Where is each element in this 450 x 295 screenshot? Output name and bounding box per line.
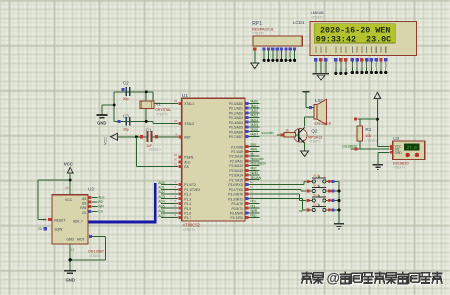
node AD0 label right xyxy=(252,100,259,104)
svg-text:DS18B20: DS18B20 xyxy=(343,145,358,149)
bus AD[0..7] vertical xyxy=(154,183,157,223)
svg-text:10: 10 xyxy=(250,180,254,184)
svg-text:P0.6/AD6: P0.6/AD6 xyxy=(229,130,243,134)
pin CS U2 xyxy=(89,210,98,213)
node DS18B20 label xyxy=(252,162,267,166)
node WEI label xyxy=(252,171,258,175)
node CS label U2 xyxy=(98,209,103,213)
pin P0.3 U1 xyxy=(229,113,260,120)
svg-text:30p: 30p xyxy=(123,127,129,131)
pin P1.6 U1 xyxy=(161,208,191,215)
LCD pins VSS VDD VEE xyxy=(314,58,327,61)
svg-text:P2.3/A11: P2.3/A11 xyxy=(230,159,243,163)
svg-text:XTAL2: XTAL2 xyxy=(184,122,194,126)
svg-text:11: 11 xyxy=(250,185,253,189)
node INT label xyxy=(252,166,257,170)
svg-text:P0.7/AD7: P0.7/AD7 xyxy=(229,135,243,139)
svg-text:RP1: RP1 xyxy=(252,21,262,27)
svg-text:23: 23 xyxy=(38,227,42,231)
svg-text:RST: RST xyxy=(184,135,191,139)
pin P0.7 U1 xyxy=(229,132,260,139)
node RS label xyxy=(252,143,257,147)
pin number 24 U2 xyxy=(65,186,69,190)
capacitor C1 xyxy=(140,128,161,152)
LCD pin name marks xyxy=(315,47,386,53)
wire VCC rail R1 xyxy=(377,98,389,146)
node AD7 label left xyxy=(158,214,165,218)
svg-text:AS: AS xyxy=(82,197,86,201)
junction LCD data xyxy=(351,71,388,74)
svg-text:P3.0/RXD: P3.0/RXD xyxy=(228,183,243,187)
node E label xyxy=(252,152,255,156)
junction button rail xyxy=(337,189,340,211)
svg-text:<TEXT>: <TEXT> xyxy=(89,254,101,258)
junction RP1 pin 7 xyxy=(284,59,287,62)
svg-text:AD3: AD3 xyxy=(158,195,165,199)
svg-text:P1.0/T2: P1.0/T2 xyxy=(184,183,196,187)
junction RP1 pin 6 xyxy=(280,59,283,62)
pin MOT U2 wire loop xyxy=(70,235,105,260)
pin P1.0 U1 xyxy=(161,180,196,187)
node RD label U2 xyxy=(98,200,103,204)
pin P3.0 U1 xyxy=(228,180,253,187)
power terminal speaker xyxy=(303,91,310,93)
pin P1.7 U1 xyxy=(161,213,191,220)
svg-text:13: 13 xyxy=(250,194,254,198)
button K3 xyxy=(306,193,339,202)
svg-text:<TEXT>: <TEXT> xyxy=(156,113,168,117)
svg-text:MOT: MOT xyxy=(77,238,85,242)
wire XTAL bottom rail xyxy=(114,121,178,123)
pin P2.6 U1 xyxy=(229,171,259,178)
RTC U2 DS12887 body xyxy=(52,187,94,244)
junction RP1 pin 3 xyxy=(267,59,270,62)
capacitor C2 xyxy=(121,81,130,102)
svg-text:P3.1/TXD: P3.1/TXD xyxy=(229,188,244,192)
pin P3.5 U1 xyxy=(231,204,253,211)
svg-text:P3.2/INT0: P3.2/INT0 xyxy=(228,193,243,197)
ground LCD xyxy=(313,74,330,80)
wire P3.6 stub xyxy=(248,212,259,214)
svg-text:<TEXT>: <TEXT> xyxy=(393,166,405,170)
junction RP1 pin 2 xyxy=(263,59,266,62)
svg-text:P0.4/AD4: P0.4/AD4 xyxy=(229,121,243,125)
svg-text:AT89C52: AT89C52 xyxy=(183,223,201,228)
pin RESET U2 xyxy=(43,218,52,222)
power terminal VCC reset xyxy=(103,133,117,145)
power terminal VCC U2 xyxy=(64,162,73,174)
node WR label U2 xyxy=(98,205,104,209)
node AD4 label left xyxy=(158,200,165,204)
svg-text:LCD1: LCD1 xyxy=(293,20,305,25)
pin P3.6 U1 xyxy=(230,208,254,215)
LCD pins RS RW E xyxy=(334,58,347,61)
node sounder label xyxy=(262,131,275,135)
wire LCD control pins xyxy=(335,61,346,72)
pin SQW U2 xyxy=(38,227,47,231)
svg-text:19: 19 xyxy=(174,99,178,103)
svg-text:U3: U3 xyxy=(393,136,399,141)
svg-text:Q2: Q2 xyxy=(311,129,318,135)
junction LCD control xyxy=(334,72,347,75)
svg-text:27.0: 27.0 xyxy=(407,147,418,151)
svg-text:AD0: AD0 xyxy=(158,181,165,185)
svg-text:DS12887: DS12887 xyxy=(88,249,104,253)
pin WR U2 xyxy=(89,205,98,208)
svg-text:P1.4: P1.4 xyxy=(184,202,191,206)
wire P3.3 to button K4 xyxy=(248,199,306,210)
ground buttons xyxy=(334,224,344,229)
pin 4 RP1 xyxy=(271,47,274,59)
svg-text:C2: C2 xyxy=(123,81,129,86)
crystal X1 xyxy=(140,90,172,123)
node ALE label U2 xyxy=(98,196,105,200)
svg-text:P2.2/A10: P2.2/A10 xyxy=(229,155,243,159)
resistor R1 xyxy=(357,126,378,143)
svg-text:X1: X1 xyxy=(155,102,161,107)
wire RESET tie loop xyxy=(38,180,70,220)
svg-text:BUT: BUT xyxy=(313,183,319,187)
svg-text:10k: 10k xyxy=(365,134,371,138)
pin P2.4 U1 xyxy=(229,161,259,168)
svg-text:P3.7/RD: P3.7/RD xyxy=(231,216,244,220)
wire R1 top xyxy=(354,118,377,126)
wire P3.7 stub xyxy=(248,217,259,219)
svg-text:P0.5/AD5: P0.5/AD5 xyxy=(229,126,243,130)
pin 5 RP1 xyxy=(276,47,279,59)
svg-text:GND: GND xyxy=(97,121,106,126)
svg-text:DS18B20: DS18B20 xyxy=(252,162,267,166)
svg-text:VCC: VCC xyxy=(65,198,73,202)
svg-text:AD6: AD6 xyxy=(158,209,165,213)
pin P2.7 U1 xyxy=(229,175,259,182)
node DS18B20 label xyxy=(343,145,358,149)
svg-text:<TEXT>: <TEXT> xyxy=(365,139,377,143)
pin P0.5 U1 xyxy=(229,123,260,130)
junction RST/EA xyxy=(135,135,138,138)
svg-text:18: 18 xyxy=(174,119,178,123)
node AD6 label right xyxy=(252,128,259,132)
svg-text:30: 30 xyxy=(174,158,178,162)
svg-text:P1.1/T2EX: P1.1/T2EX xyxy=(184,188,201,192)
node AD1 label right xyxy=(252,104,259,108)
resistor pack RP1 xyxy=(252,21,302,46)
node AD0 label left xyxy=(158,181,165,185)
pin 9 RP1 xyxy=(293,47,296,59)
pin P1.5 U1 xyxy=(161,204,191,211)
svg-text:P2.6/A14: P2.6/A14 xyxy=(229,174,243,178)
node AD3 label left xyxy=(158,195,165,199)
value DS12887 xyxy=(88,249,104,258)
svg-text:BUT: BUT xyxy=(313,193,319,197)
button K1 xyxy=(306,174,339,183)
pin XTAL2 U1 xyxy=(174,119,195,126)
LCD text line 2 xyxy=(316,35,391,45)
svg-text:SQW: SQW xyxy=(54,228,63,232)
svg-text:T0: T0 xyxy=(252,200,256,204)
svg-text:GND: GND xyxy=(66,238,74,242)
pin P3.1 U1 xyxy=(229,185,254,192)
svg-text:GND: GND xyxy=(395,151,403,155)
pin PSEN U1 xyxy=(174,153,194,160)
svg-text:P3.4/T0: P3.4/T0 xyxy=(231,202,243,206)
svg-text:LM016L: LM016L xyxy=(311,11,325,15)
svg-text:P3.3/INT1: P3.3/INT1 xyxy=(228,197,243,201)
pin RD U2 xyxy=(89,201,98,204)
node label key4 xyxy=(299,209,303,213)
svg-text:AD2: AD2 xyxy=(158,190,165,194)
svg-text:AD5: AD5 xyxy=(158,204,165,208)
svg-text:AD0..7: AD0..7 xyxy=(73,220,83,224)
svg-text:U2: U2 xyxy=(88,187,94,193)
svg-text:<TEXT>: <TEXT> xyxy=(252,32,264,36)
wire R1 bottom / DQ xyxy=(351,141,390,150)
pin P2.1 U1 xyxy=(231,147,259,154)
power terminal VCC R1 xyxy=(374,92,380,98)
wire P3.0 to button K1 xyxy=(248,181,306,184)
pin P0.6 U1 xyxy=(229,127,260,134)
node AD2 label right xyxy=(252,109,259,113)
watermark 头条 @电子产品单片机设计 xyxy=(301,270,443,286)
node sounder label xyxy=(252,157,265,161)
svg-text:GND: GND xyxy=(66,277,75,282)
node AD1 label left xyxy=(158,186,165,190)
svg-text:sounder: sounder xyxy=(252,157,265,161)
svg-text:12: 12 xyxy=(71,248,75,252)
wire VCC to RST xyxy=(118,136,178,138)
pin EA U1 xyxy=(174,162,190,169)
pin P0.2 U1 xyxy=(229,108,260,115)
svg-text:RESET: RESET xyxy=(54,218,65,222)
wire button rail xyxy=(338,181,340,223)
bus AD[0..7] horizontal xyxy=(89,221,157,224)
svg-text:30p: 30p xyxy=(123,97,129,101)
svg-text:VCC: VCC xyxy=(103,137,107,145)
svg-text:AD1: AD1 xyxy=(158,186,165,190)
svg-text:CS: CS xyxy=(98,209,103,213)
junction RP1 pin 9 xyxy=(293,59,296,62)
svg-text:DS: DS xyxy=(82,202,86,206)
svg-text:P0.0/AD0: P0.0/AD0 xyxy=(229,102,243,106)
pin 7 RP1 xyxy=(284,47,287,59)
node K6 label xyxy=(252,209,258,213)
svg-text:sounder: sounder xyxy=(262,131,275,135)
wire speaker to collector xyxy=(305,117,314,127)
junction VCC loop xyxy=(69,179,72,182)
svg-text:AD4: AD4 xyxy=(158,200,165,204)
wire VCC to speaker xyxy=(306,92,314,108)
display LCD1 LM016L xyxy=(293,11,417,55)
svg-text:<TEXT>: <TEXT> xyxy=(311,16,323,20)
pin P2.0 U1 xyxy=(231,142,259,149)
button K2 xyxy=(306,183,339,192)
pin 6 RP1 xyxy=(280,47,283,59)
svg-text:<TEXT>: <TEXT> xyxy=(183,228,195,232)
svg-text:24: 24 xyxy=(65,186,69,190)
svg-text:12: 12 xyxy=(250,190,254,194)
svg-text:SPEAKER: SPEAKER xyxy=(314,122,331,126)
capacitor C3 xyxy=(118,113,131,131)
node K5 label xyxy=(252,204,256,208)
svg-text:XTAL1: XTAL1 xyxy=(184,102,194,106)
svg-text:P1.3: P1.3 xyxy=(184,197,191,201)
svg-text:CRYSTAL: CRYSTAL xyxy=(155,108,171,112)
wire LCD data pins xyxy=(352,61,386,71)
pin RST U1 xyxy=(175,133,191,140)
wire ground drop left of crystal xyxy=(102,92,114,122)
pin P0.1 U1 xyxy=(229,104,260,111)
svg-text:P0.2/AD2: P0.2/AD2 xyxy=(229,111,243,115)
ground Q2 xyxy=(300,151,308,157)
svg-text:AD7: AD7 xyxy=(252,133,259,137)
wire GND stem U2 xyxy=(70,244,74,270)
pin P0.4 U1 xyxy=(229,118,260,125)
svg-text:ALE: ALE xyxy=(184,161,191,165)
pin P3.7 U1 xyxy=(231,213,254,220)
node AD4 label right xyxy=(252,118,259,122)
pin 2 RP1 xyxy=(263,47,266,59)
wire EA tie xyxy=(136,137,177,167)
svg-text:29: 29 xyxy=(174,153,178,157)
wire XTAL top rail xyxy=(114,92,178,104)
svg-text:WR: WR xyxy=(252,209,258,213)
svg-text:PSEN: PSEN xyxy=(184,156,194,160)
pin P3.3 U1 xyxy=(228,194,253,201)
svg-text:P1.7: P1.7 xyxy=(184,216,191,220)
svg-text:P0.1/AD1: P0.1/AD1 xyxy=(229,107,243,111)
node AD3 label right xyxy=(252,114,259,118)
svg-text:@: @ xyxy=(327,270,340,285)
pin P1.3 U1 xyxy=(161,194,191,201)
svg-text:P2.7/A15: P2.7/A15 xyxy=(229,178,243,182)
svg-text:RD: RD xyxy=(98,200,103,204)
wire P3.5 stub xyxy=(248,207,259,209)
pin P1.1 U1 xyxy=(161,185,201,192)
pin 1 RP1 xyxy=(253,47,256,57)
junction left rail xyxy=(113,104,116,107)
wire emitter to ground xyxy=(304,143,306,150)
svg-text:09:33:42 23.0C: 09:33:42 23.0C xyxy=(316,35,391,45)
svg-text:RD: RD xyxy=(252,214,257,218)
junction GND U2 xyxy=(69,258,72,261)
svg-text:P0.3/AD3: P0.3/AD3 xyxy=(229,116,243,120)
svg-text:ALE: ALE xyxy=(98,196,105,200)
svg-text:P2.5/A13: P2.5/A13 xyxy=(229,169,243,173)
svg-text:T1: T1 xyxy=(252,204,256,208)
ground near crystal xyxy=(97,115,108,126)
wire LCD power pins to ground xyxy=(316,61,326,73)
junction RP1 pin 5 xyxy=(276,59,279,62)
svg-text:10: 10 xyxy=(43,218,47,222)
LCD pins D0-D7 xyxy=(351,58,388,61)
node K7 label xyxy=(252,214,257,218)
pin P2.5 U1 xyxy=(229,166,259,173)
pin 3 RP1 xyxy=(267,47,270,59)
wire U3 ground xyxy=(378,152,390,164)
node DUAN label xyxy=(252,176,262,180)
LCD text line 1 xyxy=(320,25,390,35)
svg-text:P2.4/A12: P2.4/A12 xyxy=(229,164,243,168)
svg-text:P2.1/A9: P2.1/A9 xyxy=(231,150,243,154)
button K4 xyxy=(306,202,339,211)
ground RP1 xyxy=(251,51,259,69)
node K4 label xyxy=(252,200,256,204)
pin ALE U2 xyxy=(89,196,98,199)
op-amp U1 body AT89C52 xyxy=(182,93,245,232)
svg-text:CS: CS xyxy=(82,211,86,215)
pin 8 RP1 xyxy=(289,47,292,59)
svg-text:R1: R1 xyxy=(365,127,371,132)
temperature sensor U3 DS18B20 xyxy=(390,136,425,169)
svg-text:R/W: R/W xyxy=(80,206,86,210)
junction RP1 pin 4 xyxy=(271,59,274,62)
svg-text:P1.6: P1.6 xyxy=(184,211,191,215)
transistor Q2 xyxy=(293,127,322,143)
wire P3.1 to button K2 xyxy=(248,189,306,191)
node AD5 label right xyxy=(252,123,259,127)
svg-text:BUT: BUT xyxy=(313,174,319,178)
ground U3 xyxy=(373,165,383,170)
pin P3.4 U1 xyxy=(231,199,253,206)
node AD6 label left xyxy=(158,209,165,213)
pin P2.3 U1 xyxy=(230,156,260,163)
svg-text:<TEXT>: <TEXT> xyxy=(309,140,321,144)
svg-text:VCC: VCC xyxy=(64,162,73,167)
ground U2 xyxy=(64,271,76,283)
svg-text:1k: 1k xyxy=(285,128,289,132)
speaker LS1 xyxy=(309,98,332,126)
svg-text:WR: WR xyxy=(98,205,104,209)
svg-text:P2.0/A8: P2.0/A8 xyxy=(231,145,243,149)
pin ALE U1 xyxy=(174,158,192,165)
pin P0.0 U1 xyxy=(229,99,260,106)
wire P3.4 stub xyxy=(248,202,259,204)
node RW label xyxy=(252,148,258,152)
svg-text:AD7: AD7 xyxy=(158,214,165,218)
pin P1.4 U1 xyxy=(161,199,191,206)
pin XTAL1 U1 xyxy=(174,99,195,106)
svg-text:BUT: BUT xyxy=(313,202,319,206)
node AD5 label left xyxy=(158,204,165,208)
pin P1.2 U1 xyxy=(161,190,191,197)
pin P2.2 U1 xyxy=(229,152,259,159)
svg-text:<TEXT>: <TEXT> xyxy=(149,148,161,152)
node AD2 label left xyxy=(158,190,165,194)
svg-text:31: 31 xyxy=(174,162,178,166)
junction R1 top xyxy=(376,118,379,121)
resistor R2 base xyxy=(277,128,298,137)
wire P3.2 to button K3 xyxy=(248,194,306,200)
svg-text:P3.6/WR: P3.6/WR xyxy=(230,211,244,215)
junction RP1 pin 8 xyxy=(289,59,292,62)
svg-text:P1.2: P1.2 xyxy=(184,193,191,197)
wire VCC stem U2 xyxy=(69,173,71,195)
svg-text:P1.5: P1.5 xyxy=(184,207,191,211)
svg-text:P3.5/T1: P3.5/T1 xyxy=(231,207,243,211)
svg-text:set: set xyxy=(299,209,303,213)
pin P3.2 U1 xyxy=(228,190,253,197)
node AD7 label right xyxy=(252,133,259,137)
